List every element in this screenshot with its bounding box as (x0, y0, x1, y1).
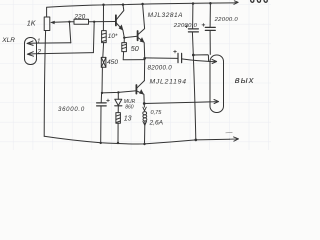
wire 450 to node B (101, 67, 103, 93)
capacitor 22000.0 B plus mark (202, 24, 205, 27)
Q3 base wire (102, 91, 136, 93)
resistor 450 body (101, 57, 106, 67)
junction node B / 450 / 36000 (101, 92, 103, 94)
wire Q1 emitter node to Q2 base (124, 36, 137, 38)
wire 50 to output node (123, 52, 144, 60)
resistor 50 body (122, 43, 127, 52)
Q2 emitter with arrow (138, 37, 145, 58)
wire 10* to 450 (102, 43, 105, 58)
capacitor 36000.0 plus mark (107, 99, 110, 102)
capacitor 22000.0 A plus mark (185, 25, 188, 28)
capacitor 36000.0 bottom wire (100, 106, 102, 143)
svg-text:0,75: 0,75 (151, 110, 163, 116)
potentiometer 1K body (44, 17, 50, 31)
wire 220 to Q1 base (89, 21, 116, 23)
resistor 13 body (116, 113, 121, 124)
svg-text:36000.0: 36000.0 (58, 107, 85, 113)
vertical wire caps node to bottom rail (193, 55, 196, 140)
junction ground / 13 (117, 142, 119, 144)
junction caps bus node (192, 54, 195, 57)
svg-text:82000.0: 82000.0 (148, 65, 173, 72)
svg-text:XLR: XLR (1, 37, 15, 44)
svg-text:2,6A: 2,6A (149, 120, 164, 127)
capacitor 22000.0 B bottom wire (209, 31, 211, 55)
svg-text:1: 1 (37, 38, 41, 45)
svg-text:13: 13 (124, 115, 132, 122)
output jack body (210, 55, 224, 113)
capacitor 22000.0 A plates (188, 29, 198, 32)
capacitor 22000.0 B plates (205, 27, 215, 30)
XLR pin 1 wire with arrow (27, 41, 71, 46)
junction rail / cap 22000 B (209, 2, 212, 5)
potentiometer wiper arrow (54, 21, 70, 24)
capacitor 36000.0 plates (97, 103, 107, 106)
svg-text:860: 860 (125, 105, 134, 111)
transistor Q1 base bar (115, 15, 117, 25)
svg-text:MJL3281A: MJL3281A (148, 12, 183, 19)
Q2 collector to rail (138, 4, 145, 34)
junction ground / caps vertical (194, 139, 197, 142)
transistor Q3 base bar (135, 85, 137, 94)
transistor Q2 base bar (137, 31, 139, 40)
capacitor bus wire to jack (193, 55, 208, 62)
junction output node (143, 57, 146, 60)
bottom rail arrowhead (230, 137, 239, 141)
corner text fragments top right (251, 0, 268, 2)
capacitor 22000.0 B top wire (209, 4, 211, 28)
wire Q1 emitter to 50 (123, 38, 125, 43)
potentiometer bottom wire (44, 31, 45, 137)
XLR pin 1 vertical to wiper node (69, 22, 70, 43)
XLR pin 2 vertical to base node (92, 22, 95, 53)
Q1 emitter with arrow (116, 23, 124, 38)
capacitor 82000.0 plates (178, 53, 182, 62)
capacitor 36000.0 top wire (100, 93, 102, 103)
wire wiper node to resistor 220 (69, 21, 74, 23)
svg-text:1K: 1K (27, 18, 37, 27)
diode MUR860 (115, 92, 122, 112)
capacitor 22000.0 A top wire (192, 4, 194, 29)
junction ground / 36000 (100, 142, 102, 144)
resistor 220 body (74, 19, 89, 24)
svg-text:2: 2 (37, 48, 42, 55)
XLR pin 2 wire with arrow (27, 52, 93, 57)
svg-text:10*: 10* (108, 33, 118, 40)
top rail arrowhead (233, 1, 238, 5)
svg-text:50: 50 (131, 44, 139, 53)
capacitor 22000.0 A bottom wire (191, 32, 194, 55)
svg-text:22000.0: 22000.0 (173, 23, 198, 29)
junction rail / Q1 collector (122, 3, 125, 6)
top supply rail (47, 3, 233, 17)
junction rail / Q2 collector (141, 3, 144, 6)
svg-text:вых: вых (235, 75, 255, 86)
junction Q1 base node (93, 21, 95, 23)
Q3 collector (137, 81, 145, 89)
junction node B / diode (117, 91, 119, 93)
resistor 10* body (102, 31, 107, 43)
junction ground / fuse (143, 143, 145, 145)
bottom ground rail (44, 136, 229, 144)
capacitor 82000.0 plus mark (174, 50, 177, 53)
XLR connector body (25, 38, 37, 65)
Q1 collector (116, 5, 124, 20)
junction rail / 10* (102, 3, 105, 6)
svg-text:MJL21194: MJL21194 (150, 78, 187, 85)
wire 82000.0 to output jack with arrow (182, 59, 217, 64)
junction rail / cap 22000 A (192, 2, 195, 5)
junction Q1 emitter node (123, 37, 125, 39)
Q3 emitter with arrow (137, 91, 145, 104)
output node vertical to Q3 collector (143, 58, 145, 80)
svg-text:220: 220 (74, 13, 86, 20)
svg-text:450: 450 (107, 59, 118, 66)
junction Q3 emitter node (143, 102, 146, 105)
wire 13 to bottom rail (117, 123, 119, 143)
fuse 0.75 2.6A (143, 104, 147, 144)
output node wire to capacitor (145, 57, 178, 60)
svg-text:22000.0: 22000.0 (214, 17, 239, 23)
wire rail to 10* (102, 5, 104, 31)
output jack pin 2 wire with arrow (144, 100, 218, 104)
junction wiper node (68, 21, 70, 23)
